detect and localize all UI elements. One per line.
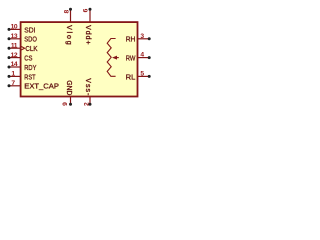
- svg-text:Vss-: Vss-: [84, 78, 91, 96]
- clock input marker at CLK: [21, 46, 25, 50]
- wiper arrow: [112, 56, 119, 60]
- svg-text:EXT_CAP: EXT_CAP: [24, 82, 59, 91]
- pin 4 RW: [126, 52, 151, 63]
- pin 3 RH: [126, 33, 151, 44]
- svg-text:GND: GND: [65, 80, 72, 95]
- svg-text:CS: CS: [24, 54, 32, 63]
- pin 6 Vdd+ (top): [83, 8, 92, 45]
- IC body U1 (digital potentiometer): [21, 22, 138, 96]
- pin 11 CLK: [8, 42, 38, 53]
- svg-text:SDI: SDI: [24, 25, 35, 34]
- pin 13 SDO: [8, 33, 38, 44]
- pin 5 RL: [126, 71, 151, 82]
- pin 2 Vss- (bottom): [84, 78, 92, 106]
- pin 9 GND (bottom): [62, 80, 72, 105]
- svg-text:RDY: RDY: [24, 63, 36, 72]
- svg-text:Vlog: Vlog: [65, 25, 72, 45]
- pin 14 RDY: [8, 61, 37, 72]
- svg-text:10: 10: [11, 24, 18, 31]
- svg-text:12: 12: [11, 52, 18, 59]
- svg-text:SDO: SDO: [24, 35, 37, 44]
- pin 7 EXT_CAP: [8, 80, 59, 91]
- pin 12 CS: [8, 52, 33, 63]
- pin 10 SDI: [8, 24, 36, 35]
- svg-text:14: 14: [11, 61, 18, 68]
- svg-text:13: 13: [11, 33, 18, 40]
- pin 1 RST: [8, 71, 36, 82]
- svg-text:CLK: CLK: [25, 44, 37, 53]
- svg-text:RW: RW: [126, 54, 136, 63]
- svg-text:RST: RST: [24, 72, 36, 81]
- potentiometer resistor element (zigzag): [107, 39, 115, 77]
- svg-text:Vdd+: Vdd+: [84, 25, 91, 44]
- svg-text:11: 11: [11, 42, 18, 49]
- svg-text:RL: RL: [126, 72, 136, 81]
- svg-text:RH: RH: [126, 35, 136, 44]
- pin 8 Vlog (top): [64, 8, 72, 45]
